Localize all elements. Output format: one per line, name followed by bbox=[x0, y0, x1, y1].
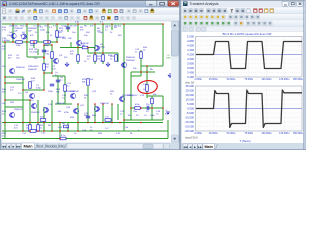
capacitor C1 bbox=[66, 26, 70, 28]
top waveform v(in) bbox=[196, 42, 302, 69]
node 78,104 bbox=[77, 103, 79, 105]
svg-text:2N4403C: 2N4403C bbox=[28, 69, 38, 71]
node 44,58 bbox=[43, 57, 45, 59]
node 112,104 bbox=[111, 103, 113, 105]
wire h y24 bbox=[2, 23, 163, 25]
right close button bbox=[297, 1, 303, 6]
wire v x27 bbox=[26, 24, 28, 57]
node 30,131 bbox=[29, 130, 31, 132]
svg-text:0.000u: 0.000u bbox=[195, 132, 203, 135]
svg-text:150.000u: 150.000u bbox=[293, 78, 304, 81]
node 68,24 bbox=[67, 23, 69, 25]
node 5,100 bbox=[4, 99, 6, 101]
svg-text:0.000u: 0.000u bbox=[195, 78, 203, 81]
svg-text:52V: 52V bbox=[165, 114, 169, 116]
capacitor C3 bbox=[146, 106, 148, 110]
node 112,122.5 bbox=[111, 122, 113, 124]
svg-text:1pF: 1pF bbox=[28, 31, 32, 33]
node 60,131 bbox=[59, 130, 61, 132]
wire h y72 bbox=[131, 71, 155, 73]
svg-text:120p: 120p bbox=[40, 30, 46, 32]
wire v x112 bbox=[111, 104, 113, 123]
node 152,108 bbox=[151, 107, 153, 109]
svg-text:25.000u: 25.000u bbox=[209, 132, 218, 135]
svg-text:4.200: 4.200 bbox=[187, 53, 194, 57]
svg-text:470n: 470n bbox=[135, 104, 141, 106]
node 78,24 bbox=[77, 23, 79, 25]
svg-text:50.000u: 50.000u bbox=[227, 132, 236, 135]
node 27,42 bbox=[26, 41, 28, 43]
svg-text:C3 1n: C3 1n bbox=[105, 26, 112, 28]
svg-text:2N5401C: 2N5401C bbox=[14, 109, 24, 111]
svg-text:▶▶: ▶▶ bbox=[16, 144, 21, 148]
transistor Q5 bbox=[122, 62, 127, 67]
svg-text:4.600: 4.600 bbox=[187, 44, 194, 48]
transistor Q11 bbox=[43, 107, 48, 112]
svg-text:25.000: 25.000 bbox=[185, 84, 194, 88]
node 5,122.5 bbox=[4, 122, 6, 124]
svg-text:3.800: 3.800 bbox=[187, 62, 194, 66]
transistor Q2 bbox=[77, 40, 82, 45]
node 5,77 bbox=[4, 76, 6, 78]
svg-text:3.200: 3.200 bbox=[187, 75, 194, 79]
svg-text:Cz: Cz bbox=[144, 115, 147, 117]
node 57,24 bbox=[56, 23, 58, 25]
close button bbox=[168, 1, 179, 6]
wire h y131 bbox=[2, 130, 168, 132]
right bottom tab bar bbox=[182, 143, 307, 150]
top plot zero line bbox=[196, 54, 303, 56]
main title bar bbox=[0, 0, 180, 8]
wire v x103 bbox=[102, 104, 104, 123]
right window frame bbox=[180, 0, 307, 150]
transistor Q12 bbox=[10, 112, 15, 117]
wire v x163 bbox=[162, 24, 164, 66]
wire h y138.5 bbox=[2, 138, 168, 140]
svg-text:Text: Text bbox=[37, 144, 44, 148]
wire v x88 bbox=[87, 112, 89, 123]
capacitor C4 bbox=[42, 49, 46, 51]
node 103,104 bbox=[102, 103, 104, 105]
node 163,24 bbox=[162, 23, 164, 25]
resistor R7 bbox=[51, 52, 54, 59]
wire v x58 mid bbox=[57, 76, 59, 104]
wire h y53 bbox=[88, 52, 118, 54]
wire v x68 bbox=[67, 123, 69, 132]
node 141,122.5 bbox=[140, 122, 142, 124]
wire stub x141 bbox=[140, 72, 142, 76]
node 141,108 bbox=[140, 107, 142, 109]
right toolbar row1 bbox=[182, 8, 307, 14]
wire v x141 bbox=[140, 50, 142, 72]
node 44,122.5 bbox=[43, 122, 45, 124]
resistor R13 bbox=[16, 41, 23, 44]
svg-text:5.000: 5.000 bbox=[187, 35, 194, 39]
node 60,138.5 bbox=[59, 138, 61, 140]
wire v x38 bbox=[37, 100, 39, 131]
main window frame bbox=[0, 0, 180, 150]
node 95,104 bbox=[94, 103, 96, 105]
node 30,100 bbox=[29, 99, 31, 101]
wire v x13 bbox=[12, 24, 14, 42]
node 38,122.5 bbox=[37, 122, 39, 124]
node 23,90 bbox=[22, 89, 24, 91]
main bottom tab bar bbox=[1, 143, 180, 151]
node 34,42 bbox=[33, 41, 35, 43]
right window icon bbox=[183, 2, 188, 7]
resistor R17 bbox=[135, 107, 141, 110]
node 78,47.5 bbox=[77, 47, 79, 49]
node 48,42 bbox=[47, 41, 49, 43]
right toolbar row2 bbox=[182, 14, 307, 20]
capacitor Cm2 bbox=[86, 115, 90, 117]
svg-text:100.000u: 100.000u bbox=[261, 132, 272, 135]
top plot grid bbox=[196, 37, 303, 78]
wire h y104 bbox=[55, 103, 72, 105]
wire v x78 bbox=[77, 104, 79, 131]
transistor Q13 bbox=[120, 96, 125, 101]
node 88,122.5 bbox=[87, 122, 89, 124]
svg-text:P2N5401C: P2N5401C bbox=[28, 66, 39, 68]
node 13,24 bbox=[12, 23, 14, 25]
min button bbox=[146, 1, 157, 6]
svg-text:R14 1k: R14 1k bbox=[20, 26, 28, 28]
node 52,73 bbox=[51, 72, 53, 74]
resistor R2 bbox=[77, 55, 80, 62]
svg-text:R5 47k: R5 47k bbox=[70, 26, 78, 28]
svg-text:Main: Main bbox=[23, 144, 33, 149]
svg-text:50.000u: 50.000u bbox=[227, 78, 236, 81]
right toolbar row4 (thin) bbox=[182, 27, 307, 32]
resistor R5 bbox=[115, 55, 118, 62]
node 38,131 bbox=[37, 130, 39, 132]
svg-text:180p: 180p bbox=[100, 47, 106, 49]
svg-text:Rz: Rz bbox=[128, 115, 131, 117]
resistor R22b bbox=[30, 130, 36, 133]
wire v x95 bbox=[94, 104, 96, 123]
svg-text:v(out)*10.0: v(out)*10.0 bbox=[185, 135, 198, 139]
wire v x65 mid bbox=[64, 76, 66, 104]
node 163,108 bbox=[162, 107, 164, 109]
wire v x131 bbox=[130, 72, 132, 120]
node 103,24 bbox=[102, 23, 104, 25]
toolbar1 icons bbox=[3, 9, 6, 13]
bottom waveform v(out) bbox=[196, 90, 302, 128]
resistor R12 (circled) bbox=[146, 85, 149, 92]
svg-text:15.000: 15.000 bbox=[185, 93, 194, 97]
node 103,122.5 bbox=[102, 122, 104, 124]
node 131,108 bbox=[130, 107, 132, 109]
Main tab bbox=[22, 143, 35, 149]
svg-text:2N4401C: 2N4401C bbox=[100, 103, 110, 105]
battery V2 bbox=[166, 111, 170, 113]
main v scrollbar bbox=[171, 21, 179, 142]
capacitor Cm1 bbox=[56, 79, 60, 81]
svg-text:2N2906C: 2N2906C bbox=[126, 60, 136, 62]
node 52,131 bbox=[51, 130, 53, 132]
schematic canvas bbox=[2, 21, 172, 142]
toolbar2 icons bbox=[2, 16, 6, 20]
bottom plot grid bbox=[196, 86, 303, 131]
svg-text:(R): (R) bbox=[82, 45, 85, 47]
resistor R9 bbox=[151, 98, 154, 104]
wire v x57 bbox=[56, 24, 58, 42]
svg-text:25.000u: 25.000u bbox=[209, 78, 218, 81]
svg-text:Main: Main bbox=[204, 145, 213, 149]
svg-text:100.000u: 100.000u bbox=[261, 78, 272, 81]
resistor R15 bbox=[44, 41, 51, 44]
wire h y57 bbox=[27, 56, 44, 58]
wire v x124 bbox=[123, 24, 125, 131]
main h scrollbar bbox=[67, 144, 163, 149]
node 141,72 bbox=[140, 71, 142, 73]
transistor Q3 bbox=[94, 45, 99, 50]
wire v x103 bbox=[102, 24, 104, 64]
node 112,24 bbox=[111, 23, 113, 25]
node 30,122.5 bbox=[29, 122, 31, 124]
svg-text:130p: 130p bbox=[98, 32, 104, 34]
svg-text:2N4403C: 2N4403C bbox=[56, 103, 66, 105]
svg-text:3.600: 3.600 bbox=[187, 66, 194, 70]
node 48,24 bbox=[47, 23, 49, 25]
transistor Q2b bbox=[21, 34, 26, 39]
wire v x44 bbox=[43, 107, 45, 131]
resistor R11 bbox=[37, 125, 40, 132]
feedback ladder bbox=[43, 45, 45, 73]
node 124,24 bbox=[123, 23, 125, 25]
resistor R44 bbox=[140, 52, 143, 59]
wire v x71 bbox=[70, 42, 72, 48]
resistor R19 bbox=[105, 119, 111, 122]
svg-text:◀◀: ◀◀ bbox=[2, 144, 7, 148]
svg-text:4.400: 4.400 bbox=[187, 48, 194, 52]
right Main tab bbox=[203, 144, 215, 150]
wire h y107 bbox=[5, 106, 23, 108]
wire v x152 bbox=[151, 96, 153, 108]
wire h y122.5 bbox=[2, 122, 163, 124]
svg-text:R9 3k3: R9 3k3 bbox=[114, 26, 122, 28]
svg-text:2N4401C: 2N4401C bbox=[66, 91, 76, 93]
node 78,131 bbox=[77, 130, 79, 132]
node 23,122.5 bbox=[22, 122, 24, 124]
transistor Q9 bbox=[94, 106, 99, 111]
wire v x118 bbox=[117, 104, 119, 120]
node 103,53 bbox=[102, 52, 104, 54]
svg-text:2N5401C: 2N5401C bbox=[16, 67, 26, 69]
svg-text:Info: Info bbox=[59, 144, 65, 148]
transistor Q8 bbox=[74, 108, 79, 113]
svg-text:125.000u: 125.000u bbox=[279, 78, 290, 81]
wire v x163 y96-108 bbox=[162, 96, 164, 108]
toolbar row2 bbox=[1, 15, 180, 22]
right title bar bbox=[182, 0, 307, 8]
app icon bbox=[3, 2, 8, 7]
wire v x23 bbox=[22, 77, 24, 131]
wire v x163 bbox=[162, 108, 164, 120]
right min button bbox=[282, 1, 288, 6]
right toolbar row3 bbox=[182, 20, 307, 26]
wire h y108 bbox=[131, 107, 163, 109]
svg-text:2N4401C: 2N4401C bbox=[16, 79, 26, 81]
wire h y83 bbox=[5, 82, 23, 84]
svg-text:100n: 100n bbox=[150, 115, 156, 117]
svg-text:10.000: 10.000 bbox=[185, 98, 194, 102]
node 44,57 bbox=[43, 56, 45, 58]
svg-text:MHz: MHz bbox=[167, 58, 172, 60]
node 13,42 bbox=[12, 41, 14, 43]
resistor Rm2 bbox=[87, 79, 90, 86]
node 52,45 bbox=[51, 44, 53, 46]
wire h y42 bbox=[2, 41, 58, 43]
svg-text:20.000: 20.000 bbox=[185, 89, 194, 93]
toolbar row1 bbox=[1, 8, 180, 15]
resistor R16 bbox=[82, 46, 88, 49]
svg-text:C1 120p: C1 120p bbox=[33, 26, 42, 28]
wire h y90 bbox=[23, 89, 44, 91]
svg-text:-10.000: -10.000 bbox=[185, 116, 195, 120]
svg-text:T (Secs): T (Secs) bbox=[239, 139, 250, 143]
wire v x147 bbox=[146, 66, 148, 98]
bottom plot zero line bbox=[196, 108, 303, 110]
red highlight ellipse bbox=[137, 79, 158, 94]
svg-text:-15.000: -15.000 bbox=[185, 120, 195, 124]
node 52,122.5 bbox=[51, 122, 53, 124]
node 88,47.5 bbox=[87, 47, 89, 49]
resistor R4 bbox=[102, 55, 105, 62]
svg-text:◀◀: ◀◀ bbox=[183, 145, 188, 149]
svg-text:1.6MHz: 1.6MHz bbox=[2, 40, 10, 42]
svg-text:C4 220p: C4 220p bbox=[29, 52, 38, 54]
svg-text:2N4403C: 2N4403C bbox=[31, 112, 41, 114]
node 147,72 bbox=[146, 71, 148, 73]
wire v x112 bbox=[111, 24, 113, 30]
node 60,122.5 bbox=[59, 122, 61, 124]
svg-text:2N3904C: 2N3904C bbox=[9, 26, 18, 28]
resistor R14 bbox=[30, 41, 37, 44]
svg-text:0.000: 0.000 bbox=[187, 107, 194, 111]
svg-text:4.800: 4.800 bbox=[187, 39, 194, 43]
wire v x118 bbox=[117, 53, 119, 62]
capacitor C4b bbox=[50, 83, 54, 85]
node 95,53 bbox=[94, 52, 96, 54]
wire v x5 bbox=[4, 42, 6, 139]
node 44,131 bbox=[43, 130, 45, 132]
wire h y76 x131-141 bbox=[131, 75, 141, 77]
node 68,131 bbox=[67, 130, 69, 132]
wire v x68 bbox=[67, 24, 69, 32]
ground G3 bbox=[169, 73, 171, 75]
wire v x44 bbox=[43, 57, 45, 90]
wire v x52 bbox=[51, 100, 53, 131]
svg-text:75.000u: 75.000u bbox=[244, 132, 253, 135]
resistor R3 bbox=[94, 55, 97, 62]
svg-text:BC-0.8C-1,2MHz-square,RC-4osc.: BC-0.8C-1,2MHz-square,RC-4osc.CIR bbox=[223, 32, 272, 36]
svg-text:-25.000: -25.000 bbox=[185, 129, 195, 133]
node 57,42 bbox=[56, 41, 58, 43]
wire v x34 bbox=[33, 42, 35, 48]
wire h y120 bbox=[124, 119, 163, 121]
resistor Rm3 bbox=[64, 125, 69, 128]
resistor R8 bbox=[29, 82, 32, 89]
right max button bbox=[289, 1, 295, 6]
wire h y66 bbox=[141, 65, 163, 67]
svg-text:2N(2N54C): 2N(2N54C) bbox=[122, 95, 133, 97]
wire v x88 bbox=[87, 48, 89, 54]
resistor R18 bbox=[40, 119, 46, 122]
node 147,66 bbox=[146, 65, 148, 67]
node 27,24 bbox=[26, 23, 28, 25]
wire v x95 bbox=[94, 24, 96, 64]
resistor R1 bbox=[56, 31, 59, 38]
wire v x88 mid bbox=[87, 86, 89, 112]
transistor Q4 bbox=[54, 58, 59, 63]
svg-text:4.000: 4.000 bbox=[187, 57, 194, 61]
svg-text:5.000: 5.000 bbox=[187, 102, 194, 106]
svg-text:-5.000: -5.000 bbox=[186, 111, 194, 115]
wire h y100 bbox=[5, 99, 30, 101]
resistor R10 bbox=[29, 125, 32, 132]
resistor R21 bbox=[60, 137, 66, 140]
svg-text:▶▶: ▶▶ bbox=[198, 145, 203, 149]
svg-text:220p: 220p bbox=[36, 88, 42, 90]
plot panel bbox=[182, 32, 304, 143]
node 5,42 bbox=[4, 41, 6, 43]
wire h y76 mid bbox=[52, 75, 65, 77]
transistor Q1 bbox=[11, 33, 16, 38]
transistor Q10 bbox=[31, 103, 36, 108]
node 95,24 bbox=[94, 23, 96, 25]
transistor Qm1 bbox=[71, 93, 76, 98]
node 23,131 bbox=[22, 130, 24, 132]
svg-text:150.000u: 150.000u bbox=[293, 132, 304, 135]
svg-text:Models: Models bbox=[46, 144, 58, 148]
svg-text:75.000u: 75.000u bbox=[244, 78, 253, 81]
max button bbox=[157, 1, 168, 6]
node 5,83 bbox=[4, 82, 6, 84]
svg-text:Transient Analysis: Transient Analysis bbox=[190, 2, 219, 6]
wire h y47.5 bbox=[60, 47, 95, 49]
wire v x152 y108-120 bbox=[151, 108, 153, 120]
wire h y77 bbox=[5, 76, 23, 78]
node 44,45 bbox=[43, 44, 45, 46]
svg-text:3.400: 3.400 bbox=[187, 71, 194, 75]
svg-text:T: T bbox=[231, 8, 234, 13]
wire h y96 x147-163 bbox=[147, 95, 163, 97]
node 124,120 bbox=[123, 119, 125, 121]
svg-text:+5B: +5B bbox=[57, 111, 61, 113]
transistor Q7 bbox=[29, 93, 34, 98]
svg-text:220p: 220p bbox=[48, 91, 54, 93]
node 78,122.5 bbox=[77, 122, 79, 124]
node 38,24 bbox=[37, 23, 39, 25]
wire v x78 bbox=[77, 24, 79, 64]
wire v x168 bbox=[167, 120, 169, 139]
svg-text:2N5401C: 2N5401C bbox=[126, 57, 136, 59]
node 120,122.5 bbox=[119, 122, 121, 124]
node 44,90 bbox=[43, 89, 45, 91]
svg-text:125.000u: 125.000u bbox=[279, 132, 290, 135]
svg-text:C2 1u: C2 1u bbox=[61, 26, 68, 28]
svg-text:1pF: 1pF bbox=[14, 31, 18, 33]
svg-text:-20.000: -20.000 bbox=[185, 125, 195, 129]
resistor R6 bbox=[43, 64, 46, 71]
transistor Q6 bbox=[10, 68, 15, 73]
wire v x30 bbox=[29, 100, 31, 131]
ground G1 bbox=[66, 62, 68, 64]
node 44,73 bbox=[43, 72, 45, 74]
ground G2 bbox=[107, 62, 109, 64]
node 95,122.5 bbox=[94, 122, 96, 124]
